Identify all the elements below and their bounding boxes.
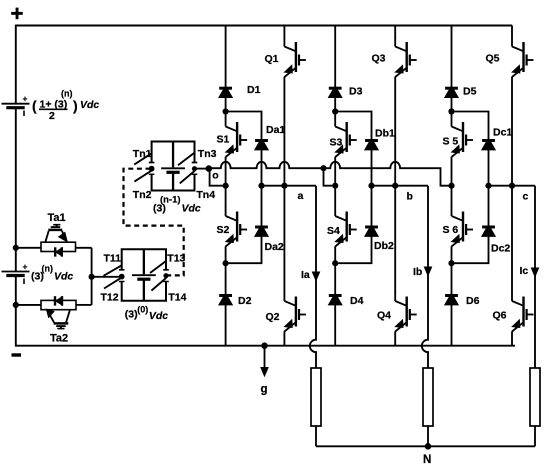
transistor S3 IGBT upper inner bbox=[334, 112, 336, 119]
node c rail Q junction bbox=[509, 183, 515, 189]
node + terminal label bbox=[11, 12, 23, 15]
H-bridge cell T ticks bbox=[119, 269, 125, 271]
diode D3 bbox=[329, 87, 342, 90]
node g junction bbox=[261, 342, 268, 349]
wire Q1 emitter to a rail bbox=[283, 77, 285, 186]
wire lower node to D4 bbox=[334, 263, 336, 295]
node c S midpoint bbox=[448, 183, 454, 189]
svg-text:Q5: Q5 bbox=[486, 52, 500, 64]
node b chain lower junction bbox=[332, 260, 338, 266]
wire left rail mid segment bbox=[15, 108, 17, 271]
transistor Ta2 IGBT bbox=[54, 322, 69, 325]
current arrow Ia bbox=[312, 272, 319, 281]
node a chain top junction bbox=[223, 108, 229, 114]
svg-text:Dc2: Dc2 bbox=[491, 243, 510, 255]
svg-text:D5: D5 bbox=[463, 86, 477, 98]
svg-text:Vdc: Vdc bbox=[149, 310, 168, 322]
svg-text:Tn3: Tn3 bbox=[198, 148, 217, 160]
battery cell Tn (3)^(n-1) Vdc bbox=[172, 142, 174, 168]
wire clamp Da2 branch bbox=[229, 186, 262, 264]
wire o bypass to S3-S4 midpoint bbox=[324, 168, 333, 186]
wire node to clamp Dc1 bbox=[452, 112, 489, 140]
svg-text:(: ( bbox=[32, 98, 37, 114]
node junction left rail to Ta1 bbox=[13, 245, 19, 251]
diode D4 bbox=[329, 294, 342, 297]
current arrow Ic bbox=[531, 268, 538, 277]
svg-text:b: b bbox=[407, 191, 413, 203]
wire S 6 emitter to lower node bbox=[451, 246, 453, 263]
wire node to clamp Db1 bbox=[335, 112, 371, 140]
wire dashed cascade link bbox=[124, 169, 184, 276]
node T-cell left terminal bbox=[119, 274, 125, 280]
switch T13 bbox=[150, 261, 166, 273]
H-bridge cell Tn ticks bbox=[149, 162, 155, 164]
transistor Q6 IGBT outer lower bbox=[511, 186, 513, 293]
transistor Q5 IGBT outer upper bbox=[511, 26, 513, 39]
svg-text:+: + bbox=[23, 262, 28, 272]
svg-text:Db2: Db2 bbox=[374, 240, 394, 252]
svg-text:(3): (3) bbox=[153, 203, 166, 215]
wire left rail to Ta2 bbox=[16, 304, 41, 306]
wire Ta1 to corner bbox=[76, 247, 92, 249]
wire a load with bus hop bbox=[310, 186, 316, 369]
node junction left rail to Ta2 bbox=[13, 302, 19, 308]
svg-text:Ta1: Ta1 bbox=[48, 212, 66, 224]
wire lower node to D2 bbox=[225, 263, 227, 295]
diode D6 bbox=[445, 294, 458, 297]
diode Dc1 clamp upper bbox=[482, 139, 495, 142]
svg-text:T11: T11 bbox=[104, 253, 122, 265]
svg-text:Q2: Q2 bbox=[266, 311, 280, 323]
svg-text:T14: T14 bbox=[168, 292, 186, 304]
svg-text:S2: S2 bbox=[217, 224, 230, 236]
svg-text:D3: D3 bbox=[349, 86, 363, 98]
wire bus to D5 bbox=[451, 26, 453, 88]
switch T14 bbox=[151, 278, 166, 291]
wire Da1 to a rail bbox=[261, 150, 263, 186]
wire corner up to junction bbox=[91, 277, 93, 305]
transistor Q4 IGBT outer lower bbox=[394, 186, 396, 293]
wire S 5 emitter to midpoint bbox=[451, 157, 453, 186]
transistor Q2 IGBT outer lower bbox=[283, 186, 285, 293]
wire o rail with hops bbox=[209, 162, 449, 186]
node Tn-cell right terminal bbox=[192, 166, 197, 171]
svg-text:Tn1: Tn1 bbox=[133, 148, 152, 160]
svg-text:Ia: Ia bbox=[301, 269, 310, 281]
resistor load c bbox=[530, 368, 540, 426]
switch Tn4 bbox=[180, 171, 195, 184]
wire c load bbox=[534, 186, 536, 369]
wire Q2 emitter to bottom bus bbox=[283, 331, 285, 346]
svg-text:Dc1: Dc1 bbox=[493, 127, 512, 139]
diode D5 bbox=[445, 87, 458, 90]
wire D3 to node bbox=[334, 98, 336, 112]
node Tn-cell left terminal bbox=[149, 166, 155, 172]
wire bottom DC bus (-) bbox=[16, 345, 515, 347]
svg-text:S 6: S 6 bbox=[443, 224, 459, 236]
wire D6 to bottom bus bbox=[451, 305, 453, 346]
svg-text:g: g bbox=[261, 384, 268, 396]
diode Ta2 antiparallel bbox=[54, 296, 56, 305]
node a rail clamp junction bbox=[258, 183, 264, 189]
wire corner down to junction bbox=[91, 248, 93, 277]
battery B1 (1+(3)^n)/2 Vdc bbox=[2, 103, 30, 105]
wire S1 emitter to midpoint bbox=[225, 157, 227, 186]
svg-text:Q1: Q1 bbox=[265, 53, 279, 65]
wire bus to D1 bbox=[225, 26, 227, 88]
wire clamp Db2 branch bbox=[338, 186, 371, 264]
wire Q6 emitter to bottom bus bbox=[511, 331, 513, 346]
wire o bypass to S1-S2 midpoint bbox=[210, 169, 223, 186]
svg-text:Q6: Q6 bbox=[493, 310, 507, 322]
svg-text:(3): (3) bbox=[31, 271, 44, 283]
diode D1 bbox=[219, 87, 232, 90]
svg-text:+: + bbox=[23, 94, 28, 104]
transistor Ta1 IGBT bbox=[48, 229, 62, 232]
switch Tn3 bbox=[178, 153, 194, 166]
svg-text:D4: D4 bbox=[350, 295, 364, 307]
svg-text:Vdc: Vdc bbox=[54, 271, 73, 283]
svg-text:a: a bbox=[298, 190, 304, 202]
wire S4 emitter to lower node bbox=[334, 246, 336, 263]
diode Da2 clamp lower bbox=[255, 226, 268, 229]
battery B2 (3)^n Vdc bbox=[2, 271, 30, 273]
wire left rail to Ta1 bbox=[16, 247, 41, 249]
diode Db1 clamp upper bbox=[365, 139, 378, 142]
wire Ta2 to corner bbox=[76, 304, 92, 306]
battery cell T (3)^0 Vdc bbox=[143, 249, 145, 274]
svg-text:Db1: Db1 bbox=[375, 128, 395, 140]
node c chain top junction bbox=[448, 108, 454, 114]
transistor S1 IGBT upper inner bbox=[225, 112, 227, 119]
svg-text:Da1: Da1 bbox=[266, 124, 285, 136]
svg-text:T12: T12 bbox=[101, 292, 119, 304]
wire left rail upper segment bbox=[15, 25, 17, 104]
diode Dc2 clamp lower bbox=[482, 226, 495, 229]
wire Db1 to b rail bbox=[371, 150, 373, 186]
svg-text:Vdc: Vdc bbox=[182, 203, 201, 215]
svg-text:Q4: Q4 bbox=[377, 310, 391, 322]
wire a output rail bbox=[262, 185, 317, 187]
wire node to clamp Da1 bbox=[226, 112, 262, 140]
svg-text:Ib: Ib bbox=[413, 266, 422, 278]
transistor S 6 IGBT lower inner bbox=[451, 186, 453, 208]
switch T12 bbox=[104, 278, 122, 289]
svg-text:S1: S1 bbox=[217, 134, 230, 146]
diode Db2 clamp lower bbox=[365, 226, 378, 229]
resistor load b bbox=[423, 368, 433, 426]
svg-text:Tn4: Tn4 bbox=[196, 189, 215, 201]
wire junction to T-cell bbox=[92, 276, 119, 278]
switch T11 bbox=[104, 265, 122, 275]
resistor load a bbox=[311, 368, 321, 426]
wire D5 to node bbox=[451, 98, 453, 112]
wire load a to N bbox=[315, 426, 317, 446]
diode D2 bbox=[219, 294, 232, 297]
H-bridge cell Tn frame bbox=[152, 142, 195, 191]
svg-text:2: 2 bbox=[49, 110, 55, 122]
svg-text:N: N bbox=[423, 454, 431, 466]
wire D2 to bottom bus bbox=[225, 305, 227, 346]
diode Da1 clamp upper bbox=[255, 139, 268, 142]
svg-text:Da2: Da2 bbox=[265, 241, 284, 253]
node o bbox=[206, 165, 213, 172]
node junction Ta mid bbox=[89, 274, 95, 280]
wire neutral N bbox=[316, 445, 535, 447]
svg-text:(0): (0) bbox=[137, 305, 148, 315]
wire top DC bus (+) bbox=[16, 25, 512, 27]
svg-text:Vdc: Vdc bbox=[80, 99, 99, 111]
transistor Q3 IGBT outer upper bbox=[394, 26, 396, 39]
switch Tn1 bbox=[134, 153, 152, 165]
svg-text:S 5: S 5 bbox=[443, 136, 459, 148]
node c chain lower junction bbox=[448, 260, 454, 266]
node b chain top junction bbox=[332, 108, 338, 114]
wire Tn-cell to node o bbox=[195, 168, 209, 170]
wire D1 to node bbox=[225, 98, 227, 112]
node a chain lower junction bbox=[223, 260, 229, 266]
svg-text:(3): (3) bbox=[125, 309, 138, 321]
H-bridge cell T frame bbox=[122, 249, 166, 300]
wire clamp Dc2 branch bbox=[455, 186, 489, 264]
node T-cell right terminal bbox=[163, 273, 168, 278]
svg-text:c: c bbox=[523, 191, 529, 203]
node b rail Q junction bbox=[392, 183, 398, 189]
svg-text:D2: D2 bbox=[238, 295, 252, 307]
transistor S4 IGBT lower inner bbox=[334, 186, 336, 208]
svg-text:S3: S3 bbox=[330, 137, 343, 149]
svg-text:Tn2: Tn2 bbox=[133, 189, 152, 201]
current arrow Ib bbox=[424, 267, 431, 276]
svg-text:D6: D6 bbox=[466, 295, 480, 307]
wire Q3 emitter to b rail bbox=[394, 77, 396, 186]
transistor S2 IGBT lower inner bbox=[225, 186, 227, 208]
svg-text:Ta2: Ta2 bbox=[50, 333, 68, 345]
svg-text:Ic: Ic bbox=[520, 265, 529, 277]
wire c output rail bbox=[489, 185, 536, 187]
transistor Ta1 frame bbox=[41, 242, 76, 251]
ground g arrow bbox=[261, 368, 268, 377]
node b S midpoint bbox=[332, 183, 338, 189]
node - terminal label bbox=[12, 353, 22, 356]
diode Ta1 antiparallel bbox=[54, 247, 56, 256]
svg-text:(n): (n) bbox=[61, 89, 73, 99]
transistor Ta2 frame bbox=[41, 300, 76, 309]
wire S2 emitter to lower node bbox=[225, 246, 227, 263]
wire left rail lower segment bbox=[15, 276, 17, 347]
node a S midpoint bbox=[223, 183, 229, 189]
svg-text:D1: D1 bbox=[247, 84, 261, 96]
wire b load with bus hop bbox=[422, 186, 428, 369]
svg-text:): ) bbox=[73, 98, 78, 114]
wire Q4 emitter to bottom bus bbox=[394, 331, 396, 346]
transistor Q1 IGBT outer upper bbox=[283, 26, 285, 39]
wire lower node to D6 bbox=[451, 263, 453, 295]
wire S3 emitter to midpoint bbox=[334, 157, 336, 186]
wire Q5 emitter to c rail bbox=[511, 77, 513, 186]
svg-text:o: o bbox=[212, 170, 218, 182]
wire load b to N bbox=[427, 426, 429, 446]
node N bbox=[425, 443, 432, 450]
svg-text:Q3: Q3 bbox=[372, 52, 386, 64]
switch Tn2 bbox=[134, 170, 151, 181]
svg-text:S4: S4 bbox=[327, 225, 340, 237]
wire g tap bbox=[264, 346, 266, 369]
wire Dc1 to c rail bbox=[488, 150, 490, 186]
node o rail junction phase b bbox=[320, 165, 326, 171]
wire D4 to bottom bus bbox=[334, 305, 336, 346]
node b rail clamp junction bbox=[368, 183, 374, 189]
wire b output rail bbox=[372, 185, 429, 187]
wire load c to N bbox=[534, 426, 536, 446]
node c rail clamp junction bbox=[485, 183, 491, 189]
node a rail Q junction bbox=[281, 183, 287, 189]
transistor S 5 IGBT upper inner bbox=[451, 112, 453, 119]
wire bus to D3 bbox=[334, 26, 336, 88]
